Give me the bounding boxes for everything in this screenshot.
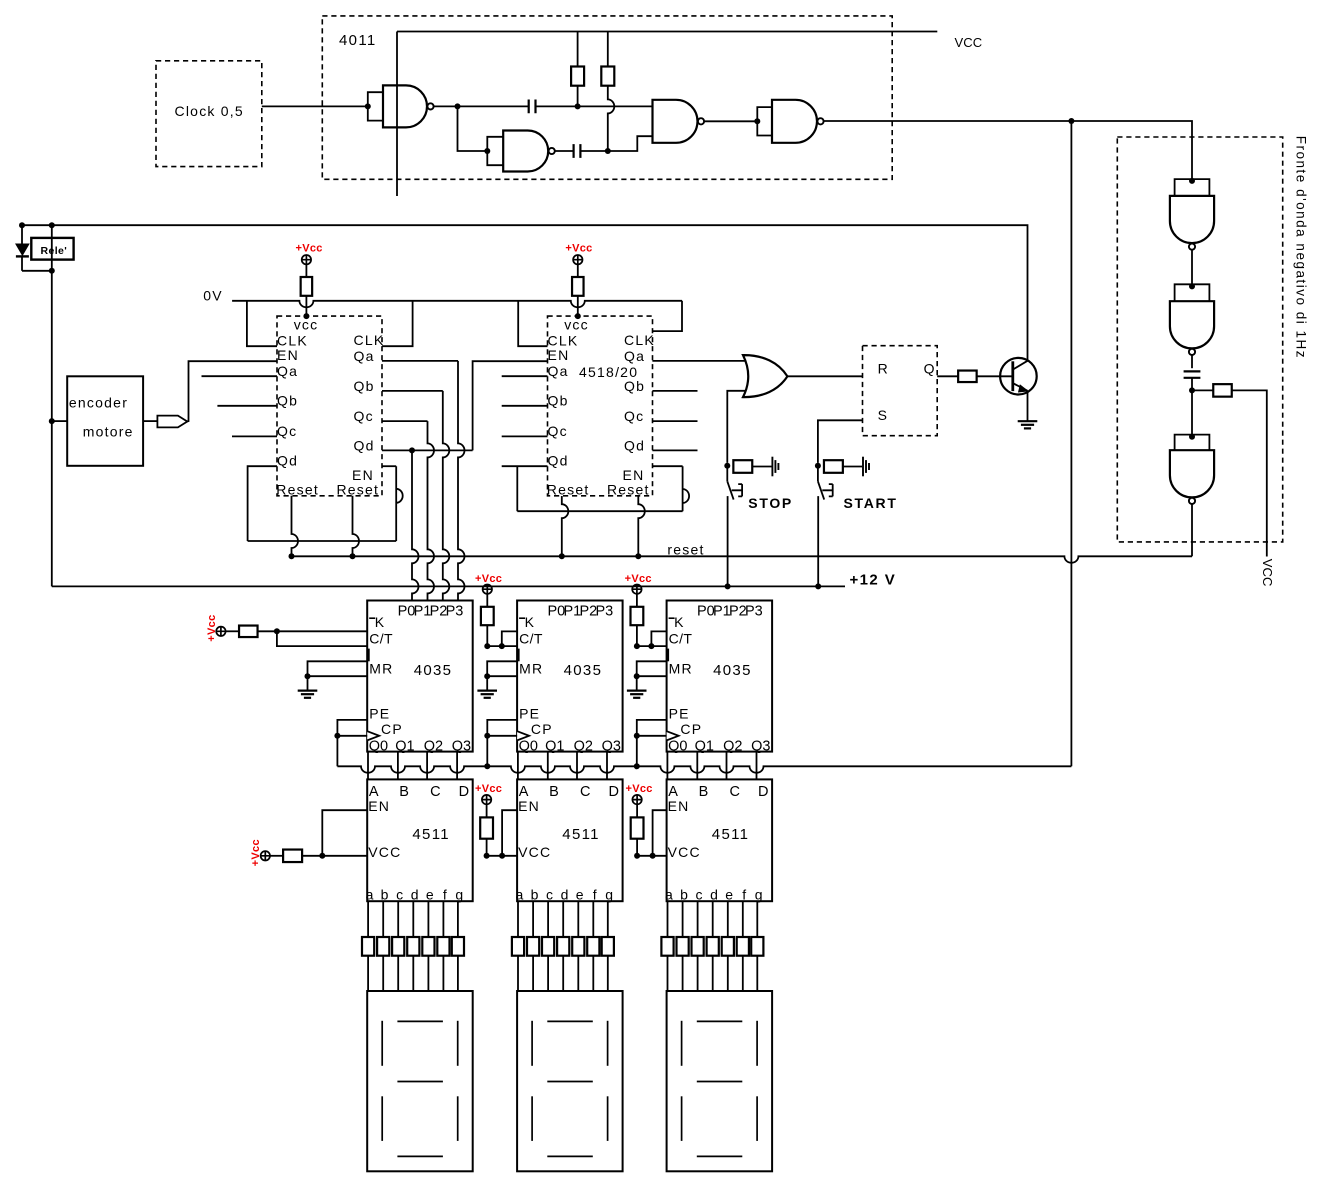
display#3 segment e: [681, 1096, 683, 1141]
wire 4511#3 segment e to resistor: [727, 901, 729, 937]
display#1 segment f: [381, 1021, 383, 1066]
junction 4511#2 node a: [484, 853, 490, 859]
counter1 Qb output wire to P2 column: [382, 390, 443, 392]
wire 4035#1 Q0 to 4511 input: [367, 752, 369, 780]
wire 4035#1 MR to ground: [307, 676, 309, 690]
counter2 left Reset drop: [562, 496, 569, 556]
svg-text:Qd: Qd: [354, 438, 375, 454]
wire resistor to K node (4035#3): [636, 625, 638, 646]
wire U1B output to C2: [555, 150, 574, 152]
junction START node: [815, 463, 821, 469]
svg-text:Qd: Qd: [548, 453, 569, 469]
counter1 Qd wire to reset loop: [248, 466, 277, 541]
wire 4511#3 segment d to resistor: [712, 901, 714, 937]
junction 4035#2 MR: [484, 673, 490, 679]
wire counter1 Qd up to counter2 EN: [473, 361, 548, 450]
svg-text:Qb: Qb: [548, 393, 569, 409]
svg-text:VCC: VCC: [668, 844, 701, 860]
wire START resistor to cap-ground: [843, 466, 862, 468]
power +Vcc symbol (counter at x=306.4): [302, 255, 311, 264]
wire C2 to node C: [581, 150, 608, 152]
counter1 Qa output wire to P3 column: [382, 360, 458, 362]
svg-text:D: D: [609, 784, 621, 800]
svg-text:C: C: [730, 784, 742, 800]
wire R4 to transistor base: [977, 375, 1012, 377]
wire switch STOP to +12V rail: [727, 496, 729, 586]
junction 4035#3 CP: [634, 733, 640, 739]
4035#2 MR upper wire: [487, 661, 517, 676]
supply resistor (4511#2): [480, 817, 493, 838]
wire 4511#2 segment a to resistor: [517, 901, 519, 937]
wire node A down to U1B input: [458, 106, 488, 151]
wire 0V to counter2 left CLK: [518, 301, 547, 346]
wire OR bottom input from STOP node: [727, 391, 746, 463]
svg-text:K: K: [525, 614, 536, 630]
wire 1Hz clock column (long vertical): [1070, 121, 1072, 766]
wire resistor e to display (4511#1): [427, 956, 429, 991]
svg-text:PE: PE: [669, 705, 690, 721]
4035#2 CP wire: [487, 735, 517, 737]
wire START node stub: [817, 463, 819, 466]
4035#2 clock triangle: [517, 731, 529, 740]
display#2 segment a: [547, 1020, 593, 1022]
4035#3 PE wire: [637, 720, 667, 736]
wire STOP resistor to cap-ground: [752, 466, 771, 468]
counter2 Qc stub (left): [502, 435, 548, 437]
supply resistor (4511#3): [631, 817, 644, 838]
wire U1C output to U1D input: [704, 120, 757, 122]
wire supply node to 4511#1 EN pin: [322, 810, 367, 856]
svg-text:Reset: Reset: [607, 482, 650, 498]
wire 4511#3 segment f to resistor: [742, 901, 744, 937]
segment resistor a (4511#3): [661, 937, 673, 956]
wire 4035#3 MR to ground: [636, 676, 638, 690]
svg-text:CP: CP: [680, 721, 702, 737]
svg-text:4511: 4511: [562, 826, 600, 843]
wire STOP node stub: [726, 463, 728, 466]
svg-text:vcc: vcc: [564, 316, 589, 332]
svg-text:4035: 4035: [414, 662, 453, 679]
counter2 Qa output wire to OR gate: [652, 360, 746, 362]
wire R3 to VCC (right): [1232, 390, 1267, 556]
STOP debounce resistor: [733, 460, 752, 473]
wire OR output to R input: [787, 375, 862, 377]
svg-text:d: d: [710, 887, 719, 903]
IC 4511#3 box: [667, 779, 773, 901]
counter1 right Reset drop: [353, 496, 360, 557]
junction 4035#1 MR: [305, 673, 311, 679]
counter2 Qb stub (right): [652, 390, 697, 392]
segment resistor g (4511#1): [452, 937, 464, 956]
START debounce resistor: [824, 460, 843, 473]
svg-text:g: g: [605, 887, 614, 903]
segment resistor b (4511#1): [377, 937, 389, 956]
svg-text:Qa: Qa: [548, 363, 569, 379]
IC 4035#3 box: [667, 601, 773, 752]
wire 4035#2 Q0 to 4511 input: [517, 752, 519, 780]
resistor R1: [571, 67, 584, 86]
wire node B to U1C top input: [578, 105, 653, 107]
counter2 Qd wire (left): [502, 465, 548, 467]
svg-text:4511: 4511: [412, 826, 450, 843]
wire resistor f to display (4511#1): [442, 956, 444, 991]
junction vcc pin (x=306.4): [303, 313, 309, 319]
wire 4035#3 Q3 to 4511 input: [756, 752, 758, 780]
svg-text:S: S: [878, 407, 889, 423]
svg-text:START: START: [844, 495, 898, 511]
wire 4035#2 MR to ground: [486, 676, 488, 690]
svg-text:EN: EN: [548, 347, 570, 363]
power +Vcc symbol (4511#2): [482, 795, 491, 804]
svg-text:Qa: Qa: [354, 348, 375, 364]
R/S flip-flop dashed box: [863, 346, 938, 436]
nand gate U2C input tie bracket: [1175, 435, 1210, 451]
wire 4035#2 Q2 to 4511 input: [576, 752, 578, 780]
power +Vcc symbol (4035#3 on +12V rail): [632, 585, 641, 594]
wire 4511#2 segment g to resistor: [607, 901, 609, 937]
wire 4035#1 CP to clock rail: [336, 736, 338, 767]
4035#2 MR lower wire: [487, 675, 517, 677]
display#2 segment g: [547, 1081, 593, 1083]
svg-text:Qd: Qd: [624, 438, 645, 454]
wire +Vcc to pull resistor (x=577.8): [577, 264, 579, 277]
wire resistor a to display (4511#2): [517, 956, 519, 991]
4035#1 CP wire: [337, 735, 367, 737]
wire encoder pulse to counter1 EN: [187, 361, 277, 421]
4035#2 label K with overline: [519, 617, 525, 619]
svg-text:Qa: Qa: [624, 348, 645, 364]
svg-text:vcc: vcc: [294, 316, 319, 332]
wire U2C output down to reset rail: [1191, 504, 1193, 556]
counter1 Qa stub (left): [202, 375, 278, 377]
junction at U1A input bracket: [365, 103, 371, 109]
wire resistor c to display (4511#3): [697, 956, 699, 991]
svg-text:b: b: [381, 887, 390, 903]
svg-text:Qb: Qb: [277, 393, 298, 409]
column P0 vertical (counter1 Qd to 4035#1): [412, 450, 419, 600]
svg-text:VCC: VCC: [1260, 559, 1275, 587]
wire resistor g to display (4511#2): [607, 956, 609, 991]
svg-text:MR: MR: [669, 660, 693, 676]
column P1 vertical (counter1 Qc to 4035#1): [428, 421, 435, 600]
4035#2 PE wire: [487, 720, 517, 736]
wire resistor b to display (4511#3): [682, 956, 684, 991]
svg-text:EN: EN: [368, 798, 390, 814]
wire U1D output (1Hz clock line) to right chain: [824, 121, 1192, 181]
junction node A: [455, 103, 461, 109]
wire 4511#2 segment d to resistor: [562, 901, 564, 937]
4035#1 label K with overline: [369, 617, 375, 619]
svg-text:C: C: [430, 784, 442, 800]
pull-up resistor (counter at x=306.4): [301, 277, 313, 296]
counter1 reset loop bottom: [248, 540, 397, 542]
svg-text:g: g: [455, 887, 464, 903]
wire 0V to counter2 right CLK: [652, 301, 682, 331]
wire +Vcc to resistor (4511#3): [636, 804, 638, 817]
wire K node to 4035#1 K pin: [277, 630, 367, 632]
svg-text:d: d: [561, 887, 570, 903]
wire resistor a to display (4511#3): [667, 956, 669, 991]
junction at U2A input: [1189, 178, 1195, 184]
svg-text:a: a: [515, 887, 524, 903]
svg-text:Reset: Reset: [336, 482, 379, 498]
IC 4511#1 box: [367, 779, 473, 901]
junction 4035#3 CP on clock rail: [634, 763, 640, 769]
wire 4035#3 Q0 to 4511 input: [666, 752, 668, 780]
svg-text:B: B: [399, 784, 410, 800]
wire resistor g to display (4511#3): [756, 956, 758, 991]
svg-text:e: e: [725, 887, 734, 903]
wire resistor d to display (4511#3): [712, 956, 714, 991]
junction counter2 left Reset on reset rail: [559, 553, 565, 559]
svg-text:D: D: [459, 784, 471, 800]
display#1 segment a: [397, 1020, 443, 1022]
svg-text:f: f: [742, 887, 747, 903]
wire resistor f to display (4511#2): [592, 956, 594, 991]
relay coil box Rele': [31, 238, 73, 260]
power +Vcc symbol (counter at x=577.8): [573, 255, 582, 264]
nand gate U1A: [383, 85, 427, 127]
svg-text:4518/20: 4518/20: [579, 364, 638, 380]
wire R1 bottom to node B: [577, 86, 579, 107]
ground (4035#2 MR): [477, 689, 497, 691]
display#2 segment f: [531, 1021, 533, 1066]
segment resistor b (4511#3): [677, 937, 689, 956]
wire resistor g to display (4511#1): [457, 956, 459, 991]
svg-text:Qb: Qb: [624, 378, 645, 394]
ground (4035#1 MR): [298, 689, 318, 691]
nand gate U1D: [772, 100, 817, 143]
wire R6 to junction: [302, 855, 322, 857]
wire 4511#2 segment e to resistor: [577, 901, 579, 937]
wire node to 4511#2 EN pin: [502, 810, 517, 856]
7-segment display#2 box: [517, 991, 623, 1171]
wire node D to R3: [1192, 389, 1213, 391]
counter2 Qd drop to reset loop: [516, 466, 518, 511]
svg-text:d: d: [411, 887, 420, 903]
wire +Vcc to R5: [226, 630, 239, 632]
counter1 Qb stub (left): [217, 405, 277, 407]
wire relay through-line down to +12V rail: [51, 225, 53, 586]
wire node to 4035#3 K pin: [651, 631, 666, 646]
segment resistor a (4511#2): [512, 937, 524, 956]
wire resistor d to display (4511#2): [562, 956, 564, 991]
or gate U3: [743, 355, 787, 397]
wire R1 top to VCC rail: [577, 32, 579, 67]
wire U2B output to C3: [1191, 355, 1193, 368]
junction node C: [605, 148, 611, 154]
IC 4035#1 box: [367, 601, 473, 752]
clock generator box Clock 0,5 (dashed): [156, 61, 262, 167]
wire 4511#3 segment a to resistor: [667, 901, 669, 937]
power +Vcc symbol (4035#2 on +12V rail): [483, 585, 492, 594]
power +Vcc symbol (4035#1): [216, 627, 225, 636]
segment resistor g (4511#2): [602, 937, 614, 956]
svg-text:a: a: [366, 887, 375, 903]
segment resistor c (4511#1): [392, 937, 404, 956]
svg-text:Q0: Q0: [369, 738, 388, 754]
nand gate U2C: [1170, 450, 1214, 497]
svg-text:+Vcc: +Vcc: [565, 243, 592, 255]
svg-text:g: g: [755, 887, 764, 903]
display#3 segment c: [756, 1096, 758, 1141]
counter2 reset loop up to EN right (hop at box edge): [683, 466, 690, 511]
svg-text:STOP: STOP: [748, 495, 793, 511]
svg-text:MR: MR: [519, 660, 543, 676]
wire reset rail: [292, 556, 1193, 563]
nand gate U1C: [653, 100, 698, 143]
wire resistor to counter vcc pin (x=577.8): [577, 296, 579, 316]
switch STOP actuator: [732, 484, 742, 496]
wire resistor e to display (4511#2): [577, 956, 579, 991]
counter2 EN right wire: [652, 465, 682, 467]
counter1 left Reset drop: [292, 496, 299, 557]
wire node C to U1C lower input: [608, 136, 653, 151]
wire +Vcc to resistor (4511#2): [486, 804, 488, 817]
resistor R5 (4035#1 K/CT pull-up): [239, 626, 257, 638]
wire +Vcc to R6: [270, 855, 283, 857]
wire K node to 4035#1 C/T pin: [277, 631, 367, 646]
counter1 reset loop up to EN right (hop at box edge): [396, 466, 403, 541]
7-segment display#1 box: [367, 991, 473, 1171]
4035#3 label K with overline: [669, 617, 675, 619]
svg-text:0V: 0V: [203, 287, 223, 303]
svg-text:P3: P3: [745, 603, 763, 619]
display#1 segment b: [457, 1021, 459, 1066]
svg-text:CP: CP: [531, 721, 553, 737]
counter2 Qc stub (right): [652, 420, 697, 422]
wire resistor to K node (4035#2): [486, 625, 488, 646]
svg-text:EN: EN: [668, 798, 690, 814]
wire 4511#3 segment b to resistor: [682, 901, 684, 937]
display#3 segment g: [697, 1081, 743, 1083]
junction 4035#1 K node: [274, 628, 280, 634]
power +Vcc symbol (4511#3): [632, 795, 641, 804]
segment resistor d (4511#3): [707, 937, 719, 956]
junction at U2C input: [1189, 434, 1195, 440]
wire 4035#2 Q3 to 4511 input: [606, 752, 608, 780]
7-segment display#3 box: [667, 991, 773, 1171]
4035#2 pin tick between C/T and MR: [517, 649, 519, 662]
wire S input from START node: [818, 420, 863, 463]
segment resistor d (4511#1): [407, 937, 419, 956]
counter2 Qb stub (left): [502, 405, 548, 407]
svg-text:VCC: VCC: [955, 35, 983, 50]
counter2 Qd stub (right): [652, 449, 697, 451]
wire STOP node to switch: [726, 466, 728, 482]
4035#1 clock triangle: [367, 731, 379, 740]
svg-text:CP: CP: [381, 721, 403, 737]
svg-text:Q0: Q0: [519, 738, 538, 754]
ground (4035#3 MR): [627, 689, 647, 691]
wire VCC top rail of 4011: [397, 31, 937, 33]
segment resistor f (4511#2): [587, 937, 599, 956]
wire 4035#1 Q1 to 4511 input: [397, 752, 399, 780]
junction 4511#3 node b: [650, 853, 656, 859]
nand gate U2B: [1170, 301, 1214, 348]
svg-text:e: e: [576, 887, 585, 903]
svg-text:c: c: [695, 887, 703, 903]
4035#1 pin tick between C/T and MR: [367, 649, 369, 662]
display#3 segment b: [756, 1021, 758, 1066]
switch STOP blade: [727, 481, 733, 499]
wire vertical through gate U1A down below box: [396, 32, 398, 197]
svg-text:Qd: Qd: [277, 453, 298, 469]
wire node to 4035#3 C/T pin: [637, 645, 667, 647]
svg-text:CLK: CLK: [624, 332, 655, 348]
wire R2 bottom to node C with hop: [608, 86, 615, 151]
display#1 segment g: [397, 1081, 443, 1083]
display#3 segment d: [697, 1155, 743, 1157]
wire diode to relay bottom node: [22, 270, 52, 272]
wire 4035#3 CP to clock rail: [636, 736, 638, 767]
capacitor to ground (STOP): [771, 457, 773, 477]
svg-text:+Vcc: +Vcc: [206, 614, 218, 641]
resistor R3: [1213, 384, 1232, 397]
svg-text:B: B: [549, 784, 560, 800]
wire 4035#1 Q2 to 4511 input: [426, 752, 428, 780]
display#3 segment f: [681, 1021, 683, 1066]
svg-text:Q0: Q0: [668, 738, 687, 754]
wire 4511#3 segment c to resistor: [697, 901, 699, 937]
wire +Vcc to pull resistor (x=306.4): [305, 264, 307, 277]
wire 0V line: [232, 301, 682, 308]
wire resistor e to display (4511#3): [727, 956, 729, 991]
svg-text:C/T: C/T: [669, 631, 693, 647]
wire resistor b to display (4511#2): [532, 956, 534, 991]
junction relay bottom node: [49, 268, 55, 274]
4035#3 CP wire: [637, 735, 667, 737]
wire switch START to +12V rail: [817, 496, 819, 586]
wire resistor b to display (4511#1): [382, 956, 384, 991]
svg-text:+12 V: +12 V: [850, 572, 897, 589]
wire resistor c to display (4511#1): [397, 956, 399, 991]
segment resistor d (4511#2): [557, 937, 569, 956]
nand gate U1B: [503, 131, 548, 172]
wire 4035#2 CP to clock rail: [486, 736, 488, 767]
wire 4511#2 segment c to resistor: [547, 901, 549, 937]
svg-text:c: c: [546, 887, 554, 903]
svg-text:EN: EN: [277, 347, 299, 363]
svg-text:+Vcc: +Vcc: [625, 573, 652, 585]
wire node to 4511#3 EN pin: [653, 810, 667, 856]
nand gate U2B input tie bracket: [1175, 284, 1210, 301]
svg-text:motore: motore: [83, 424, 134, 440]
svg-text:Q: Q: [924, 361, 936, 377]
4035#3 clock triangle: [667, 731, 679, 740]
wire node to 4511#3 VCC pin: [637, 855, 667, 857]
nand gate U2A input tie bracket: [1175, 179, 1210, 196]
display#2 segment c: [607, 1096, 609, 1141]
junction counter2 right Reset on reset rail: [635, 553, 641, 559]
svg-text:Rele': Rele': [41, 245, 68, 257]
wire resistor to node (4511#2): [486, 839, 488, 856]
svg-text:+Vcc: +Vcc: [250, 839, 262, 866]
svg-text:MR: MR: [369, 660, 393, 676]
wire node D to U2C input: [1191, 390, 1193, 434]
segment resistor e (4511#3): [722, 937, 734, 956]
svg-text:Q3: Q3: [751, 738, 770, 754]
segment resistor e (4511#1): [422, 937, 434, 956]
display#2 segment b: [607, 1021, 609, 1066]
wire +12V rail: [52, 585, 845, 587]
display#2 segment e: [531, 1096, 533, 1141]
svg-text:encoder: encoder: [69, 394, 128, 410]
counter2 right Reset drop: [638, 496, 645, 556]
svg-text:VCC: VCC: [518, 844, 551, 860]
pull-up resistor (counter at x=577.8): [572, 277, 584, 296]
4035#3 MR upper wire: [637, 661, 667, 676]
